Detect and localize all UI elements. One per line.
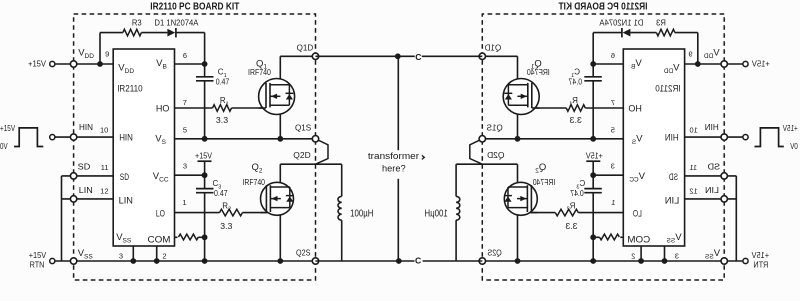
svg-text:HIN: HIN <box>119 133 133 144</box>
svg-text:100µH: 100µH <box>350 208 373 220</box>
svg-text:LO: LO <box>156 209 165 220</box>
svg-text:1: 1 <box>182 198 186 207</box>
svg-text:here?: here? <box>382 163 406 174</box>
svg-text:IR2110 PC BOARD KIT: IR2110 PC BOARD KIT <box>150 2 239 13</box>
svg-text:COM: COM <box>148 235 171 246</box>
svg-text:7: 7 <box>183 98 187 107</box>
svg-text:IRF740: IRF740 <box>243 178 266 187</box>
svg-text:0V: 0V <box>0 141 8 151</box>
svg-text:Q1D: Q1D <box>297 42 314 52</box>
svg-text:C: C <box>415 52 421 62</box>
svg-text:+15V: +15V <box>195 150 212 160</box>
svg-text:LIN: LIN <box>119 196 134 207</box>
svg-text:RTN: RTN <box>30 260 45 270</box>
svg-text:2: 2 <box>162 251 166 260</box>
svg-text:Q2S: Q2S <box>296 247 311 257</box>
svg-text:C: C <box>415 256 421 266</box>
svg-text:HO: HO <box>156 104 170 115</box>
svg-text:LIN: LIN <box>79 185 93 195</box>
svg-text:3: 3 <box>119 251 123 260</box>
svg-text:D1 1N2074A: D1 1N2074A <box>154 18 198 28</box>
svg-text:0.47: 0.47 <box>216 78 230 87</box>
svg-text:+15V: +15V <box>0 123 15 133</box>
svg-text:6: 6 <box>183 51 187 60</box>
svg-text:10: 10 <box>100 126 108 135</box>
svg-text:3.3: 3.3 <box>220 222 232 231</box>
svg-text:IR2110: IR2110 <box>117 84 142 95</box>
svg-text:3: 3 <box>183 161 187 170</box>
svg-text:Q2D: Q2D <box>293 150 310 160</box>
svg-text:IRF740: IRF740 <box>248 68 271 77</box>
svg-text:transformer: transformer <box>368 151 419 162</box>
svg-text:HIN: HIN <box>79 122 93 132</box>
svg-text:+15V: +15V <box>29 250 47 260</box>
svg-text:9: 9 <box>105 50 109 59</box>
svg-text:11: 11 <box>101 163 109 172</box>
svg-text:0.47: 0.47 <box>214 189 228 198</box>
svg-text:SD: SD <box>78 162 91 172</box>
svg-text:3.3: 3.3 <box>216 116 228 125</box>
svg-text:R3: R3 <box>132 18 142 27</box>
svg-text:Q1S: Q1S <box>295 123 312 133</box>
svg-text:12: 12 <box>100 186 108 195</box>
svg-text:+15V: +15V <box>28 58 46 68</box>
svg-text:SD: SD <box>120 172 129 183</box>
svg-text:5: 5 <box>183 125 187 134</box>
